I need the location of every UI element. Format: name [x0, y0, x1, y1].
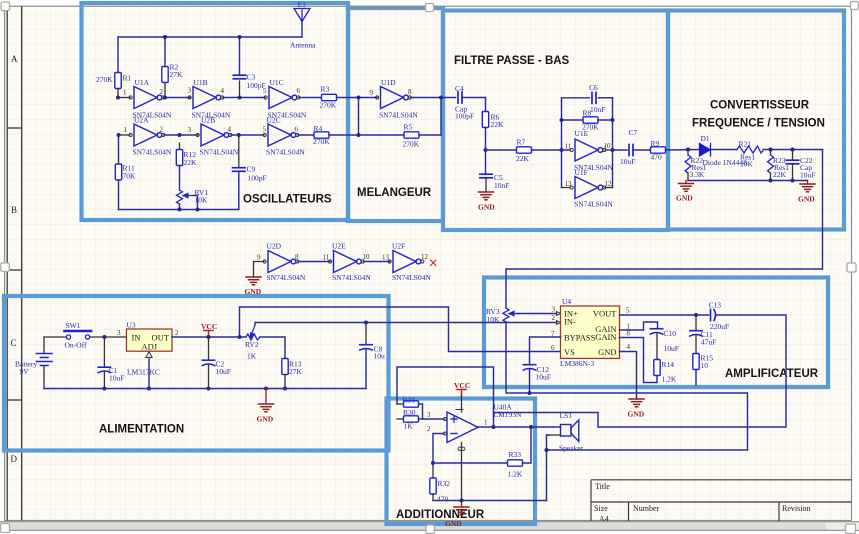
handle bottom-left [1, 524, 10, 533]
svg-text:C13: C13 [709, 301, 722, 310]
amplifier U4 LM386N-3 [561, 306, 620, 358]
inverter U1A [129, 87, 165, 109]
svg-text:R21: R21 [739, 140, 752, 149]
capacitor C3 [233, 75, 245, 79]
capacitor C1 [98, 367, 110, 372]
wire R21 out [764, 149, 823, 151]
node wiper/rail [196, 208, 200, 212]
node RV1 bottom [178, 208, 182, 212]
svg-text:C10: C10 [664, 329, 677, 338]
wire feedback left vertical [561, 98, 563, 188]
svg-text:Revision: Revision [782, 504, 810, 513]
svg-text:LM193N: LM193N [494, 410, 523, 419]
svg-text:10uF: 10uF [620, 157, 635, 166]
handle top-right [851, 2, 859, 10]
wire C13 out to speaker net [494, 315, 787, 427]
wire IN- net [433, 434, 508, 464]
svg-text:U2B: U2B [201, 116, 215, 125]
selection line over melangeur bar [348, 6, 443, 8]
capacitor C4 [458, 92, 462, 103]
svg-text:270K: 270K [320, 101, 337, 110]
handle mid-right [847, 263, 856, 272]
sheet zone inner line [21, 6, 23, 520]
svg-text:SN74LS04N: SN74LS04N [332, 273, 371, 282]
wire gnd stub [461, 501, 463, 508]
svg-text:Title: Title [595, 482, 610, 491]
svg-text:10nF: 10nF [494, 181, 509, 190]
svg-text:270K: 270K [403, 140, 420, 149]
node C12 ground [528, 391, 532, 395]
svg-text:10: 10 [701, 361, 709, 370]
section box OSCILLATEURS [82, 3, 349, 220]
svg-text:C7: C7 [629, 128, 638, 137]
svg-text:SN74LS04N: SN74LS04N [267, 273, 306, 282]
wire R30 input stub [397, 418, 404, 420]
zone divider C/D [7, 399, 22, 401]
inverter U2F [388, 251, 424, 273]
handle bottom-center [426, 525, 435, 534]
svg-text:GND: GND [628, 410, 645, 419]
svg-text:Antenna: Antenna [290, 41, 316, 50]
wire R12 to RV1 [179, 166, 181, 191]
scrollbar track [0, 522, 859, 531]
node U1E out [611, 148, 615, 152]
svg-text:100pF: 100pF [248, 174, 267, 183]
svg-text:FREQUENCE / TENSION: FREQUENCE / TENSION [692, 118, 825, 130]
svg-text:U1C: U1C [270, 78, 284, 87]
svg-text:470: 470 [437, 495, 449, 504]
wire adder ground rail [433, 500, 547, 502]
capacitor C9 [233, 168, 245, 172]
zone divider B/C [7, 269, 22, 271]
svg-text:10uF: 10uF [664, 344, 679, 353]
svg-text:VS: VS [564, 347, 575, 357]
svg-text:9: 9 [370, 89, 374, 97]
svg-text:U2A: U2A [134, 116, 149, 125]
svg-text:270K: 270K [96, 75, 113, 84]
wire C10 to R14 [656, 333, 658, 360]
wire osc bottom rail [119, 209, 239, 211]
svg-text:GND: GND [598, 347, 616, 357]
svg-text:10K: 10K [740, 160, 754, 169]
wire R5 out [419, 134, 441, 136]
wire R6 top lead [485, 98, 487, 113]
svg-text:4: 4 [627, 343, 631, 351]
svg-text:3: 3 [117, 329, 121, 337]
wire top feedback net [118, 36, 302, 38]
svg-text:5: 5 [263, 87, 267, 95]
ground adder [454, 507, 469, 515]
svg-text:13: 13 [565, 180, 573, 188]
svg-text:R4: R4 [314, 124, 323, 133]
section box ADDITIONNEUR [387, 399, 536, 525]
svg-text:RV2: RV2 [245, 340, 259, 349]
opamp power arrow [456, 409, 463, 411]
title block number/revision divider [778, 502, 780, 521]
svg-text:GND: GND [478, 203, 495, 212]
wire R33 out to output node [523, 427, 532, 463]
wire R6 bottom lead [485, 128, 487, 151]
node U1E in [560, 148, 564, 152]
resistor R5 [404, 132, 419, 138]
regulator U3 LM317KC [127, 329, 173, 352]
svg-text:1: 1 [123, 89, 127, 97]
svg-text:SN74LS04N: SN74LS04N [379, 111, 418, 120]
wire C5 bottom lead [485, 178, 487, 192]
svg-text:2: 2 [160, 88, 164, 96]
section box FILTRE PASSE-BAS [443, 11, 668, 231]
wire U1C out to R3 [299, 97, 322, 99]
wire R3 out to mix node [337, 97, 378, 99]
wire C22 bottom lead [792, 164, 794, 181]
ground converter right [800, 184, 815, 192]
svg-text:U2F: U2F [392, 242, 405, 251]
ADJ pin arrow [146, 352, 152, 358]
svg-text:ADJ: ADJ [142, 342, 158, 352]
wire SW1 to C1 node [90, 336, 127, 338]
wire R22 top lead [687, 150, 689, 156]
node R1/row1 [116, 96, 120, 100]
node C9 top [237, 133, 241, 137]
svg-text:3.3K: 3.3K [690, 170, 705, 179]
svg-text:1: 1 [124, 126, 128, 134]
wire gain loop pin8 [620, 338, 658, 383]
node GND rail [264, 387, 268, 391]
svg-text:10uF: 10uF [800, 171, 815, 180]
svg-text:C: C [11, 338, 17, 348]
capacitor C10 [650, 329, 662, 334]
wire VCC to VS net [240, 307, 561, 352]
node R33 output [529, 425, 533, 429]
ground U4 [629, 399, 644, 407]
node U1D out [439, 96, 443, 100]
inverter U2C [263, 124, 299, 146]
wire C6 left [562, 97, 590, 99]
wire C6 right [599, 97, 613, 99]
svg-text:10: 10 [604, 142, 612, 150]
RV2 wiper arrow [250, 325, 255, 338]
wire C11 top lead [695, 315, 697, 331]
capacitor C13 [711, 310, 716, 321]
node C1 top [102, 335, 106, 339]
svg-text:2: 2 [175, 329, 179, 337]
svg-text:SN74LS04N: SN74LS04N [392, 273, 431, 282]
wire U1F input stub [562, 187, 571, 189]
wire summing join [419, 404, 445, 419]
svg-text:3: 3 [188, 87, 192, 95]
svg-text:VOUT: VOUT [593, 309, 617, 319]
svg-text:220uF: 220uF [710, 322, 729, 331]
wire VCC to opamp top [461, 396, 463, 412]
svg-text:1K: 1K [247, 352, 257, 361]
wire gnd to U2D [254, 262, 265, 278]
node row2 left [117, 133, 121, 137]
handle bottom-right [846, 524, 856, 534]
svg-text:1K: 1K [404, 422, 414, 431]
node C11 top [694, 313, 698, 317]
wire U2D out to U2E in [298, 261, 330, 263]
svg-text:R3: R3 [321, 85, 330, 94]
svg-text:U1B: U1B [194, 78, 208, 87]
svg-text:SN74LS04N: SN74LS04N [266, 148, 305, 157]
node R8 left [560, 118, 564, 122]
ground converter left [679, 184, 694, 192]
power VCC U40A [457, 390, 466, 397]
wire row1 input [118, 97, 130, 99]
inverter U1B [188, 87, 224, 109]
svg-text:9: 9 [257, 254, 261, 262]
svg-text:12: 12 [421, 253, 429, 261]
pin arrow IN+ [557, 312, 561, 316]
speaker LS1 [561, 420, 579, 442]
section box MELANGEUR [348, 8, 443, 221]
node ADJ rail [147, 387, 151, 391]
node C22 rail [791, 179, 795, 183]
resistor R31 [404, 401, 419, 407]
wire ADJ to rail [148, 358, 150, 389]
node feedback output [492, 425, 496, 429]
wire C1 top lead [103, 337, 105, 367]
svg-text:5: 5 [263, 126, 267, 134]
wire antenna stem [301, 22, 303, 38]
svg-text:4: 4 [221, 87, 225, 95]
svg-text:On-Off: On-Off [65, 341, 87, 350]
svg-text:C6: C6 [589, 83, 598, 92]
node R23 rail [769, 179, 773, 183]
wire R4 out / row2 to R5 [329, 134, 404, 136]
svg-text:GND: GND [676, 194, 693, 203]
svg-text:47uF: 47uF [701, 338, 716, 347]
wire C8 top lead [365, 323, 367, 345]
svg-text:ADDITIONNEUR: ADDITIONNEUR [396, 509, 485, 521]
svg-text:GND: GND [245, 287, 262, 296]
svg-text:VCC: VCC [454, 381, 470, 390]
RV1 wiper arrow [183, 193, 193, 197]
svg-text:8: 8 [295, 253, 299, 261]
capacitor C11 [690, 331, 702, 336]
node R13 bottom [283, 387, 287, 391]
svg-text:GAIN: GAIN [595, 332, 616, 342]
node speaker return [545, 448, 549, 452]
svg-text:GND: GND [257, 415, 274, 424]
wire RV3 bottom to ground loop [506, 322, 748, 450]
svg-text:LS1: LS1 [560, 411, 573, 420]
RV3 wiper arrow [509, 311, 517, 315]
resistor R13 [282, 359, 288, 375]
svg-text:22K: 22K [516, 154, 530, 163]
wire battery top lead [44, 337, 67, 353]
handle top-left [1, 2, 10, 11]
svg-text:OSCILLATEURS: OSCILLATEURS [243, 194, 332, 206]
wire gnd stub right [807, 181, 809, 185]
svg-text:10K: 10K [195, 196, 209, 205]
node C8 top [364, 321, 368, 325]
wire R1 bottom lead [117, 89, 119, 98]
svg-text:SN74LS04N: SN74LS04N [574, 200, 613, 209]
svg-text:SN74LS04N: SN74LS04N [133, 148, 172, 157]
svg-text:10: 10 [363, 253, 371, 261]
op-amp U40A [444, 412, 479, 443]
wire gnd stub left [685, 181, 687, 184]
svg-text:R31: R31 [403, 396, 416, 405]
pin arrow IN- [557, 321, 561, 325]
node R23 top [769, 148, 773, 152]
resistor R8 [583, 117, 598, 123]
svg-text:10uF: 10uF [109, 374, 124, 383]
node C3 top [238, 35, 242, 39]
wire R5 feedback vertical [440, 98, 442, 136]
svg-text:10uF: 10uF [536, 373, 551, 382]
wire R11 top lead [118, 135, 120, 164]
wire C9 bottom to rail [238, 172, 240, 210]
svg-text:R14: R14 [662, 360, 675, 369]
svg-text:6: 6 [551, 344, 555, 352]
title block size/number divider [628, 502, 630, 521]
section box AMPLIFICATEUR [484, 278, 828, 388]
svg-text:VCC: VCC [201, 322, 217, 331]
resistor R7 [517, 147, 532, 153]
wire C8 bottom to rail [365, 349, 367, 389]
svg-text:A: A [11, 54, 18, 64]
svg-text:22K: 22K [773, 170, 787, 179]
node R12 top [178, 133, 182, 137]
wire R23 bottom lead [770, 173, 772, 181]
svg-text:2: 2 [427, 425, 431, 433]
svg-text:U1D: U1D [381, 78, 396, 87]
svg-text:C9: C9 [247, 165, 256, 174]
svg-text:R33: R33 [509, 450, 522, 459]
svg-text:3: 3 [427, 411, 431, 419]
wire R31 input lead [397, 403, 404, 405]
no-connect marker U2F out [431, 260, 437, 266]
page margin left [0, 0, 4, 534]
svg-text:U2D: U2D [267, 242, 282, 251]
svg-text:70K: 70K [123, 172, 137, 181]
section box ALIMENTATION [4, 296, 389, 451]
svg-text:Number: Number [633, 504, 660, 513]
title block left line [590, 480, 592, 521]
wire RV2 wiper net to IN- [255, 323, 557, 326]
svg-text:R7: R7 [517, 138, 526, 147]
node opamp gnd [460, 499, 464, 503]
resistor R12 [176, 150, 182, 166]
svg-text:MELANGEUR: MELANGEUR [357, 187, 432, 199]
svg-text:R9: R9 [651, 139, 660, 148]
wire feedback top net [397, 367, 494, 427]
row2 start: wire to U2A [119, 134, 131, 136]
svg-text:SW1: SW1 [66, 321, 81, 330]
wire pin4 to ground [620, 352, 637, 400]
node C22 top [791, 148, 795, 152]
resistor R22 [685, 155, 691, 173]
node R2 top [163, 35, 167, 39]
node C1 bottom [102, 387, 106, 391]
wire U2E out to U2F in [364, 261, 390, 263]
wire C3 bottom lead [239, 81, 241, 98]
node R32 top [431, 461, 435, 465]
resistor R6 [482, 112, 488, 128]
svg-text:10u: 10u [374, 352, 386, 361]
svg-text:470: 470 [651, 153, 663, 162]
svg-text:U2E: U2E [332, 242, 346, 251]
wire C12 bottom lead [529, 369, 531, 393]
svg-text:ALIMENTATION: ALIMENTATION [99, 424, 184, 436]
wire D1 out to R21 [711, 149, 738, 151]
capacitor C8 [360, 345, 372, 350]
svg-text:1.2K: 1.2K [662, 375, 677, 384]
svg-text:SN74LS04N: SN74LS04N [200, 148, 239, 157]
node mix row1 [357, 96, 361, 100]
wire opamp output to speaker [478, 426, 561, 428]
inverter U2A [129, 124, 165, 146]
svg-text:R32: R32 [438, 479, 451, 488]
potentiometer RV2 [246, 334, 260, 340]
capacitor C7 [629, 145, 633, 156]
svg-text:6: 6 [295, 126, 299, 134]
inverter U1F [570, 177, 606, 199]
node R6/R7/C5 [484, 148, 488, 152]
wire U1D out [411, 97, 456, 99]
svg-text:D: D [11, 454, 18, 464]
resistor R4 [314, 132, 329, 138]
inverter U2E [329, 251, 365, 273]
svg-text:6: 6 [297, 87, 301, 95]
wire alim bottom rail [44, 388, 366, 390]
svg-text:12: 12 [605, 180, 613, 188]
wire BYPASS to C12 [530, 337, 561, 365]
wire R12 bottom lead [179, 143, 181, 150]
svg-text:27K: 27K [289, 367, 303, 376]
node R8 right [611, 118, 615, 122]
node VCC [207, 335, 211, 339]
wire C1 bottom lead [103, 372, 105, 389]
handle mid-left [1, 263, 10, 272]
svg-text:FILTRE PASSE - BAS: FILTRE PASSE - BAS [454, 55, 570, 67]
wire RV1 bottom to rail [179, 204, 181, 210]
svg-text:LM317KC: LM317KC [127, 368, 160, 377]
wire RV2 out to R13 [260, 337, 285, 359]
svg-text:LM386N-3: LM386N-3 [560, 359, 594, 368]
wire node to R7 [486, 149, 517, 151]
wire R11 bottom to rail [118, 180, 120, 210]
wire RV1 wiper to rail [193, 196, 198, 210]
node RV2 left [238, 335, 242, 339]
capacitor C6 [592, 92, 596, 103]
svg-text:100pF: 100pF [455, 112, 474, 121]
svg-text:22K: 22K [184, 158, 198, 167]
wire C4 out to R6 node [462, 97, 486, 99]
ground C5 [479, 192, 494, 200]
switch SW1 [65, 331, 92, 339]
page margin top [0, 0, 859, 6]
wire R13 bottom lead [284, 375, 286, 389]
sheet border outer line [6, 6, 8, 520]
wire R30 out [419, 418, 423, 420]
page margin bottom [0, 531, 859, 534]
wire converter output to amplifier [506, 150, 823, 309]
svg-text:AMPLIFICATEUR: AMPLIFICATEUR [725, 368, 819, 380]
svg-text:IN: IN [132, 333, 141, 343]
node R22 top [686, 148, 690, 152]
label infinity [458, 447, 465, 450]
wire R9 out to converter [666, 149, 700, 152]
svg-text:R5: R5 [404, 123, 413, 132]
svg-text:R1: R1 [123, 74, 132, 83]
antenna E1 [294, 9, 310, 22]
svg-text:B: B [11, 205, 17, 215]
svg-text:C4: C4 [455, 84, 464, 93]
wire U2C out to R4 [298, 134, 314, 136]
